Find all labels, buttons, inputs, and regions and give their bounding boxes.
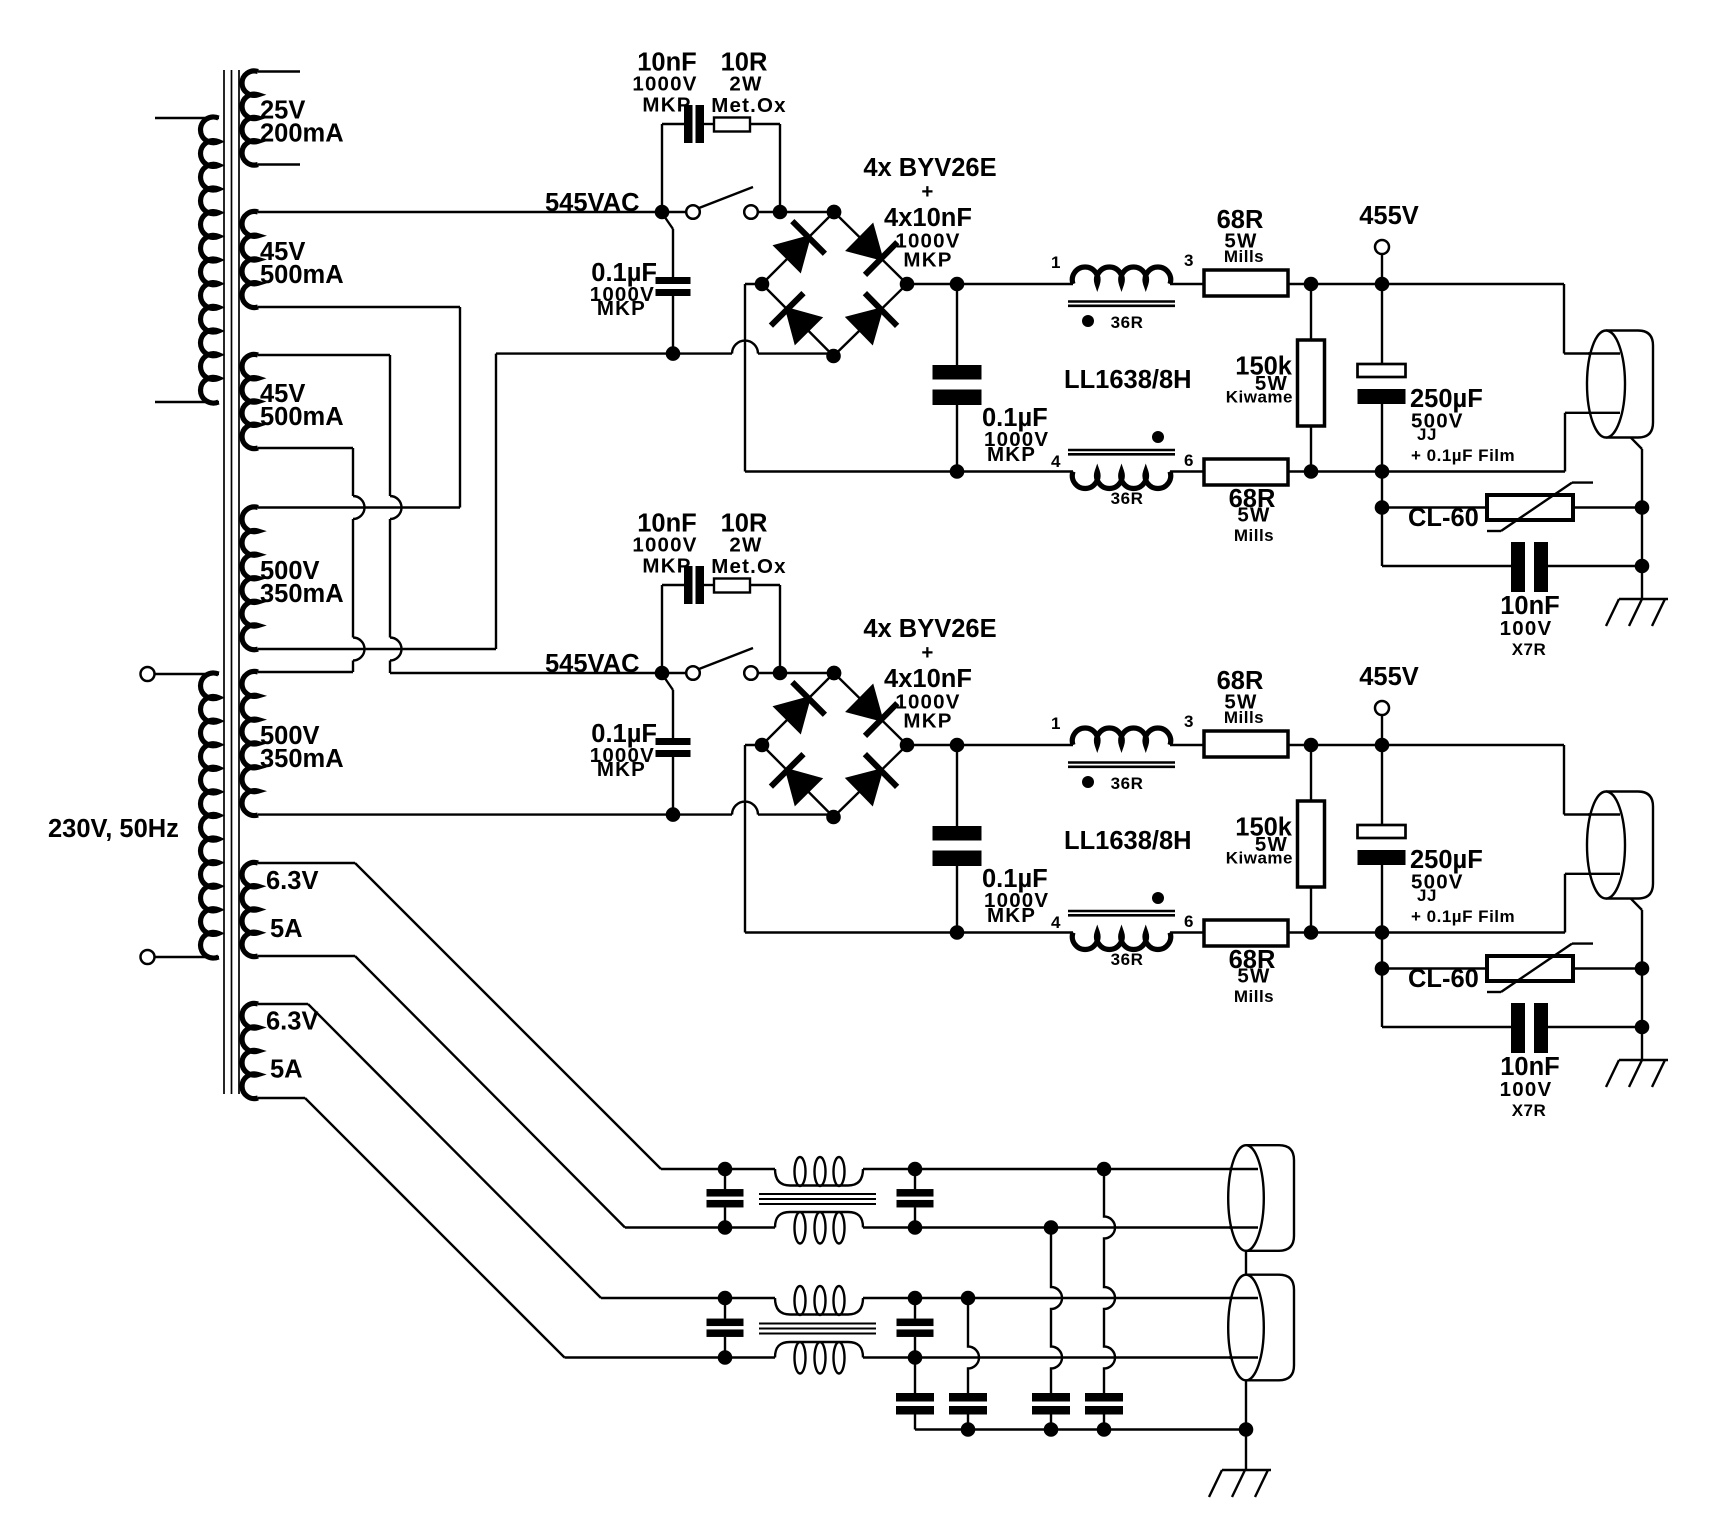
svg-text:Met.Ox: Met.Ox [711,555,787,578]
svg-text:1: 1 [1051,253,1061,272]
svg-text:Mills: Mills [1234,987,1274,1006]
svg-text:+: + [921,641,934,664]
svg-text:3: 3 [1184,712,1194,731]
svg-text:36R: 36R [1111,950,1144,969]
svg-text:2W: 2W [729,73,762,96]
svg-text:2W: 2W [729,534,762,557]
svg-text:JJ: JJ [1417,886,1437,905]
svg-text:100V: 100V [1500,1078,1553,1101]
svg-text:6.3V: 6.3V [266,1008,318,1036]
svg-text:Kiwame: Kiwame [1226,849,1293,868]
svg-text:MKP: MKP [987,904,1036,927]
svg-text:36R: 36R [1111,774,1144,793]
svg-text:545VAC: 545VAC [545,189,640,217]
svg-text:6: 6 [1184,912,1194,931]
svg-text:545VAC: 545VAC [545,650,640,678]
svg-text:MKP: MKP [642,94,691,117]
svg-text:LL1638/8H: LL1638/8H [1064,366,1192,394]
svg-text:JJ: JJ [1417,425,1437,444]
svg-text:MKP: MKP [903,710,952,733]
svg-text:Mills: Mills [1224,247,1264,266]
svg-text:MKP: MKP [987,443,1036,466]
svg-text:6.3V: 6.3V [266,867,318,895]
svg-text:455V: 455V [1359,202,1419,230]
svg-text:LL1638/8H: LL1638/8H [1064,827,1192,855]
svg-text:Mills: Mills [1224,708,1264,727]
svg-text:1000V: 1000V [632,534,697,557]
svg-text:5W: 5W [1237,965,1270,988]
svg-text:4: 4 [1051,913,1061,932]
svg-text:+: + [921,180,934,203]
svg-text:Mills: Mills [1234,526,1274,545]
svg-text:MKP: MKP [597,297,646,320]
svg-text:5A: 5A [270,1056,303,1084]
svg-text:MKP: MKP [642,555,691,578]
svg-text:500mA: 500mA [260,403,344,431]
svg-text:350mA: 350mA [260,745,344,773]
svg-text:X7R: X7R [1512,1101,1547,1120]
svg-text:6: 6 [1184,451,1194,470]
svg-text:36R: 36R [1111,313,1144,332]
svg-text:1000V: 1000V [632,73,697,96]
svg-text:455V: 455V [1359,663,1419,691]
svg-text:4x10nF: 4x10nF [884,204,972,232]
svg-text:CL-60: CL-60 [1408,504,1479,532]
svg-text:5W: 5W [1237,504,1270,527]
svg-text:4x BYV26E: 4x BYV26E [863,154,996,182]
svg-text:4x BYV26E: 4x BYV26E [863,615,996,643]
svg-text:200mA: 200mA [260,120,344,148]
svg-text:4x10nF: 4x10nF [884,665,972,693]
svg-text:10nF: 10nF [1500,592,1560,620]
svg-text:3: 3 [1184,251,1194,270]
svg-text:230V, 50Hz: 230V, 50Hz [48,815,179,843]
svg-text:+ 0.1µF Film: + 0.1µF Film [1411,446,1515,465]
svg-text:350mA: 350mA [260,580,344,608]
svg-text:MKP: MKP [903,249,952,272]
svg-text:Kiwame: Kiwame [1226,388,1293,407]
svg-text:36R: 36R [1111,489,1144,508]
svg-text:500mA: 500mA [260,261,344,289]
svg-text:100V: 100V [1500,617,1553,640]
svg-text:MKP: MKP [597,758,646,781]
svg-text:CL-60: CL-60 [1408,965,1479,993]
svg-text:1: 1 [1051,714,1061,733]
svg-text:Met.Ox: Met.Ox [711,94,787,117]
svg-text:4: 4 [1051,452,1061,471]
svg-text:+ 0.1µF Film: + 0.1µF Film [1411,907,1515,926]
svg-text:X7R: X7R [1512,640,1547,659]
svg-text:5A: 5A [270,915,303,943]
svg-text:10nF: 10nF [1500,1053,1560,1081]
